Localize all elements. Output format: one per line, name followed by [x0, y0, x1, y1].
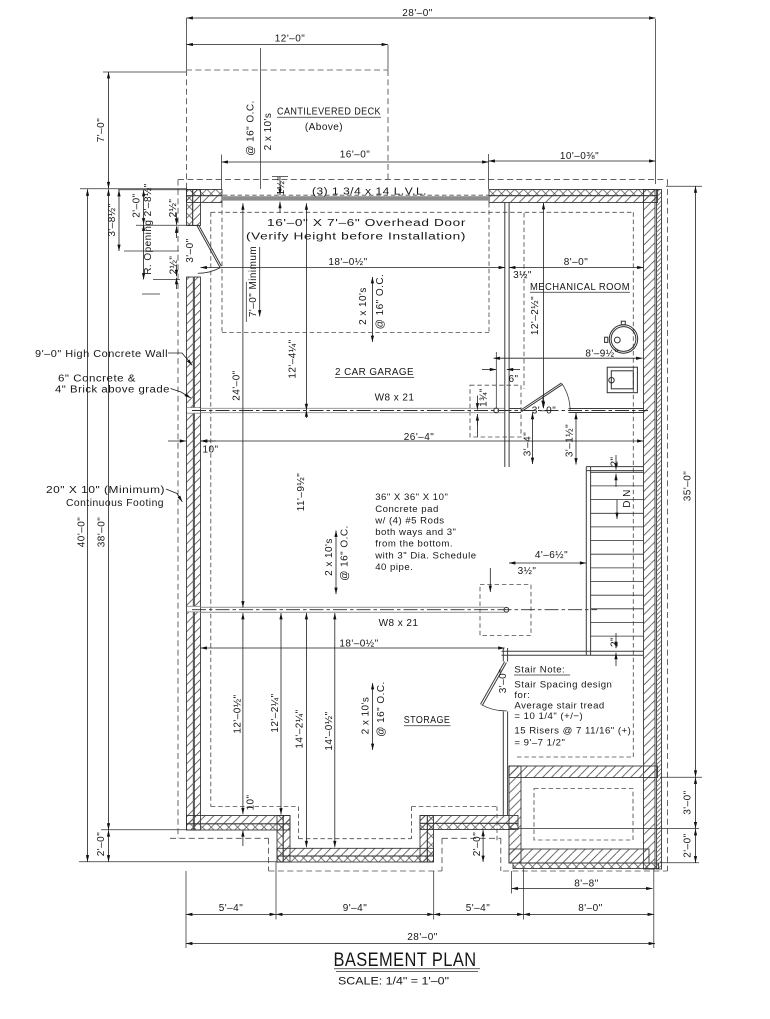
svg-text:W8 x 21: W8 x 21: [375, 393, 415, 404]
svg-text:12'–0½": 12'–0½": [233, 694, 244, 733]
svg-text:28'–0": 28'–0": [402, 8, 432, 19]
svg-text:6": 6": [508, 374, 518, 385]
svg-text:36" X 36" X 10": 36" X 36" X 10": [375, 492, 448, 503]
svg-text:2": 2": [610, 456, 621, 466]
svg-text:18'–0½": 18'–0½": [328, 257, 367, 268]
svg-text:= 10 1/4" (+/−): = 10 1/4" (+/−): [514, 711, 583, 722]
svg-text:3'–0": 3'–0": [532, 406, 556, 417]
svg-text:with 3" Dia. Schedule: with 3" Dia. Schedule: [374, 551, 476, 562]
svg-text:40 pipe.: 40 pipe.: [375, 562, 413, 573]
svg-text:2 x 10's: 2 x 10's: [263, 113, 274, 151]
svg-text:(3) 1 3/4 x 14 L.V.L.: (3) 1 3/4 x 14 L.V.L.: [312, 187, 427, 198]
svg-text:8'–9½": 8'–9½": [585, 349, 618, 360]
svg-text:5'–4": 5'–4": [219, 903, 243, 914]
svg-text:10": 10": [246, 794, 257, 810]
svg-text:4'–6½": 4'–6½": [535, 550, 568, 561]
svg-text:Concrete pad: Concrete pad: [375, 504, 439, 515]
svg-text:3'–0": 3'–0": [185, 238, 196, 262]
svg-text:16'–0": 16'–0": [340, 150, 370, 161]
svg-text:2": 2": [610, 637, 621, 647]
svg-text:38'–0": 38'–0": [97, 517, 108, 547]
svg-text:2 x 10's: 2 x 10's: [324, 538, 335, 576]
svg-text:@ 16" O.C.: @ 16" O.C.: [246, 100, 257, 155]
svg-text:2'–0": 2'–0": [683, 833, 694, 857]
svg-text:15 Risers @ 7 11/16" (+): 15 Risers @ 7 11/16" (+): [514, 726, 631, 737]
svg-text:@ 16" O.C.: @ 16" O.C.: [376, 681, 387, 736]
svg-text:10": 10": [202, 445, 218, 456]
svg-text:12'–2½": 12'–2½": [530, 296, 541, 335]
svg-text:Stair Note:: Stair Note:: [514, 665, 565, 676]
svg-text:8'–0": 8'–0": [564, 257, 588, 268]
svg-text:28'–0": 28'–0": [407, 932, 437, 943]
svg-text:26'–4": 26'–4": [404, 432, 434, 443]
svg-text:3'–1½": 3'–1½": [565, 424, 576, 457]
svg-text:8'–0": 8'–0": [578, 903, 602, 914]
svg-text:16'–0" X 7'–6" Overhead Door: 16'–0" X 7'–6" Overhead Door: [267, 218, 466, 229]
svg-text:7'–0" Minimum: 7'–0" Minimum: [248, 246, 259, 317]
svg-text:12'–0": 12'–0": [275, 34, 305, 45]
svg-text:both ways and 3": both ways and 3": [375, 527, 456, 538]
svg-text:7'–0": 7'–0": [96, 118, 107, 142]
svg-text:R. Opening 2'–8½": R. Opening 2'–8½": [143, 183, 154, 275]
svg-text:12'–4¼": 12'–4¼": [287, 339, 299, 378]
svg-text:CANTILEVERED DECK: CANTILEVERED DECK: [277, 107, 381, 118]
svg-text:W8 x 21: W8 x 21: [379, 618, 419, 629]
svg-text:3½": 3½": [518, 566, 537, 577]
svg-text:14'–0½": 14'–0½": [324, 711, 335, 750]
svg-text:35'–0": 35'–0": [683, 471, 694, 501]
svg-text:Average stair tread: Average stair tread: [514, 701, 604, 712]
svg-text:2½": 2½": [168, 199, 179, 218]
svg-text:Stair Spacing design: Stair Spacing design: [514, 680, 612, 691]
svg-text:2'–0": 2'–0": [472, 832, 483, 856]
svg-text:(Verify Height before Installa: (Verify Height before Installation): [246, 232, 466, 243]
svg-text:= 9'–7 1/2": = 9'–7 1/2": [514, 738, 565, 749]
svg-text:3½": 3½": [513, 270, 532, 281]
svg-text:D N: D N: [622, 489, 633, 508]
svg-text:3'–4": 3'–4": [523, 432, 534, 456]
svg-text:from the bottom.: from the bottom.: [375, 539, 453, 550]
svg-text:20" X 10" (Minimum): 20" X 10" (Minimum): [46, 485, 165, 496]
svg-text:STORAGE: STORAGE: [404, 715, 451, 726]
svg-text:8'–8": 8'–8": [574, 879, 598, 890]
svg-text:w/ (4) #5 Rods: w/ (4) #5 Rods: [374, 516, 444, 527]
svg-text:24'–0": 24'–0": [232, 370, 243, 400]
svg-text:3'–0": 3'–0": [683, 790, 694, 814]
svg-text:4" Brick above grade: 4" Brick above grade: [55, 385, 170, 396]
svg-text:11'–9½": 11'–9½": [296, 473, 307, 511]
svg-text:1½": 1½": [276, 177, 287, 196]
svg-text:MECHANICAL ROOM: MECHANICAL ROOM: [530, 282, 630, 293]
svg-text:2'–0": 2'–0": [96, 832, 107, 856]
svg-text:2 x 10's: 2 x 10's: [361, 697, 372, 735]
svg-text:2½": 2½": [169, 256, 180, 275]
svg-text:40'–0": 40'–0": [77, 517, 88, 547]
svg-text:9'–4": 9'–4": [343, 903, 367, 914]
svg-text:2 CAR GARAGE: 2 CAR GARAGE: [335, 367, 414, 378]
svg-text:(Above): (Above): [305, 122, 343, 133]
svg-text:3'–8½": 3'–8½": [107, 203, 118, 236]
svg-text:@ 16" O.C.: @ 16" O.C.: [375, 274, 386, 329]
svg-text:5'–4": 5'–4": [466, 903, 490, 914]
svg-text:12'–2¼": 12'–2¼": [269, 693, 281, 732]
svg-text:Continuous Footing: Continuous Footing: [66, 498, 164, 509]
svg-text:6" Concrete &: 6" Concrete &: [58, 374, 136, 385]
svg-text:3'–0": 3'–0": [498, 669, 509, 693]
svg-text:@ 16" O.C.: @ 16" O.C.: [339, 525, 350, 580]
svg-text:9'–0" High Concrete Wall: 9'–0" High Concrete Wall: [35, 349, 168, 360]
svg-text:BASEMENT PLAN: BASEMENT PLAN: [334, 949, 477, 971]
svg-text:1¾": 1¾": [479, 388, 490, 407]
svg-text:2'–0": 2'–0": [132, 193, 143, 217]
svg-text:10'–0⅜": 10'–0⅜": [560, 151, 599, 162]
svg-text:for:: for:: [514, 690, 530, 701]
svg-text:14'–2¼": 14'–2¼": [294, 709, 306, 748]
svg-text:SCALE: 1/4" = 1'–0": SCALE: 1/4" = 1'–0": [338, 976, 449, 988]
svg-text:2 x 10's: 2 x 10's: [358, 287, 369, 325]
svg-text:18'–0½": 18'–0½": [339, 639, 378, 650]
